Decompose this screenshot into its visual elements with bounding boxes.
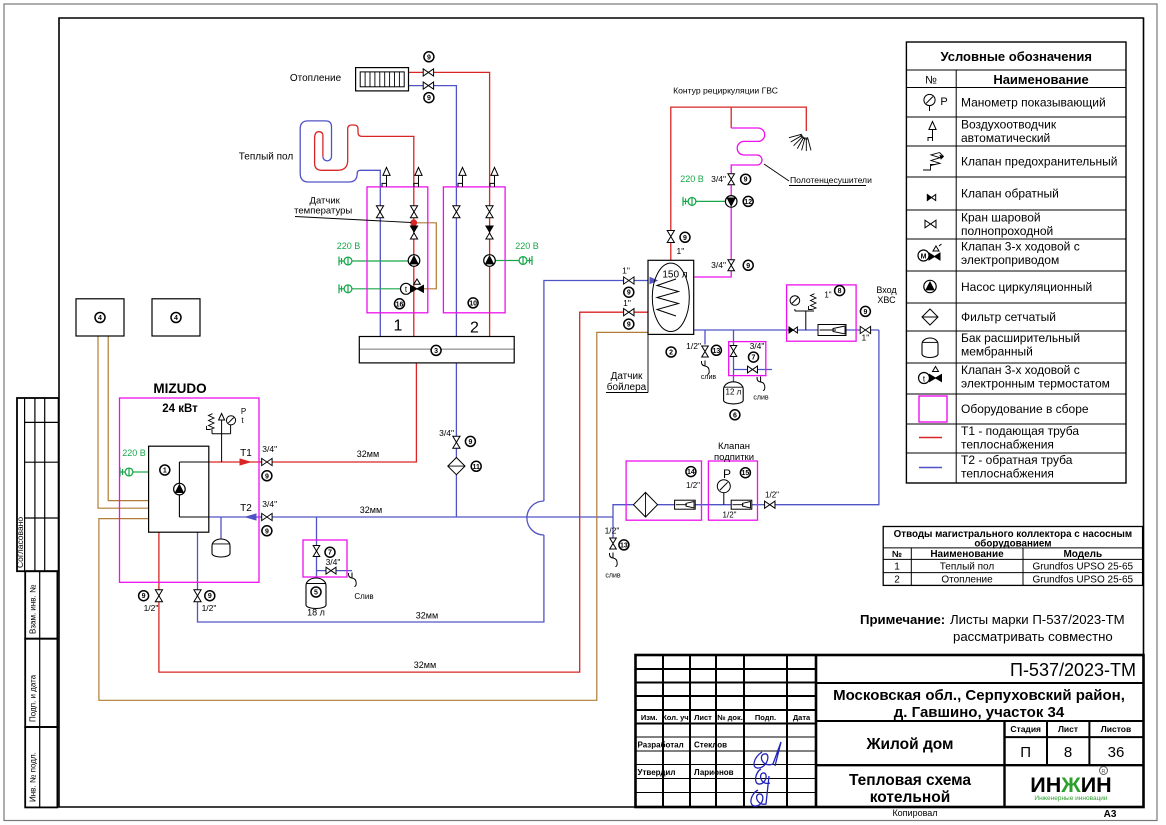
svg-text:теплоснабжения: теплоснабжения [961, 438, 1054, 452]
svg-text:Слив: Слив [354, 592, 373, 601]
svg-text:Стадия: Стадия [1010, 724, 1041, 734]
svg-text:Листы марки П-537/2023-ТМ: Листы марки П-537/2023-ТМ [950, 612, 1125, 627]
svg-text:мембранный: мембранный [961, 345, 1033, 359]
svg-text:слив: слив [753, 395, 768, 402]
svg-text:Разработал: Разработал [638, 741, 684, 750]
svg-text:9: 9 [627, 322, 631, 329]
svg-text:д. Гавшино, участок 34: д. Гавшино, участок 34 [894, 704, 1065, 721]
svg-text:Клапан обратный: Клапан обратный [961, 187, 1059, 201]
svg-text:Взам. инв. №: Взам. инв. № [29, 584, 38, 634]
svg-text:Фильтр сетчатый: Фильтр сетчатый [961, 310, 1056, 324]
svg-text:9: 9 [746, 263, 750, 270]
svg-text:Grundfos UPSO 25-65: Grundfos UPSO 25-65 [1032, 562, 1133, 573]
svg-text:слив: слив [701, 374, 716, 381]
svg-text:1/2": 1/2" [605, 526, 620, 536]
svg-text:8: 8 [1064, 744, 1072, 761]
svg-text:Инженерные инновации: Инженерные инновации [1034, 795, 1108, 802]
svg-text:9: 9 [208, 593, 212, 600]
svg-text:Московская обл., Серпуховский: Московская обл., Серпуховский район, [833, 687, 1125, 704]
svg-text:13: 13 [713, 348, 721, 355]
svg-text:16: 16 [396, 301, 404, 308]
svg-text:рассматривать совместно: рассматривать совместно [953, 629, 1113, 644]
svg-text:теплоснабжения: теплоснабжения [961, 467, 1054, 481]
svg-text:Бак расширительный: Бак расширительный [961, 331, 1080, 345]
svg-text:М: М [921, 254, 927, 261]
svg-text:Теплый пол: Теплый пол [239, 152, 294, 163]
svg-text:3/4": 3/4" [711, 174, 726, 184]
svg-text:2: 2 [894, 575, 900, 586]
svg-text:1": 1" [622, 266, 630, 276]
svg-text:7: 7 [328, 550, 332, 557]
svg-text:Согласовано: Согласовано [15, 517, 25, 568]
svg-text:ХВС: ХВС [877, 295, 896, 305]
svg-text:12 л: 12 л [726, 388, 742, 397]
svg-text:Примечание:: Примечание: [860, 612, 945, 627]
svg-text:R: R [1102, 769, 1106, 775]
svg-text:Кол. уч.: Кол. уч. [662, 713, 691, 722]
svg-text:Утвердил: Утвердил [638, 768, 676, 777]
svg-text:Воздухоотводчик: Воздухоотводчик [961, 118, 1057, 132]
svg-text:5: 5 [314, 590, 318, 597]
svg-text:Р: Р [940, 96, 947, 108]
svg-text:220 В: 220 В [515, 241, 539, 251]
svg-text:6: 6 [733, 412, 737, 419]
svg-text:1/2": 1/2" [686, 341, 701, 351]
svg-text:1: 1 [394, 318, 403, 335]
svg-text:9: 9 [427, 95, 431, 102]
svg-text:14: 14 [687, 469, 695, 476]
svg-text:24 кВт: 24 кВт [162, 403, 198, 415]
svg-text:температуры: температуры [294, 206, 352, 217]
svg-text:9: 9 [427, 54, 431, 61]
svg-text:2: 2 [669, 350, 673, 357]
svg-text:Наименование: Наименование [993, 72, 1088, 87]
svg-text:Теплый пол: Теплый пол [940, 562, 995, 573]
svg-text:1/2": 1/2" [723, 511, 737, 520]
svg-text:3/4": 3/4" [711, 260, 726, 270]
svg-text:Копировал: Копировал [892, 808, 937, 818]
svg-text:Вход: Вход [876, 285, 897, 295]
svg-text:9: 9 [627, 290, 631, 297]
svg-text:3/4": 3/4" [262, 444, 277, 454]
svg-text:Изм.: Изм. [641, 713, 658, 722]
svg-text:220 В: 220 В [337, 241, 361, 251]
svg-text:автоматический: автоматический [961, 131, 1050, 145]
svg-text:Контур рециркуляции ГВС: Контур рециркуляции ГВС [673, 86, 778, 96]
svg-text:котельной: котельной [870, 789, 951, 806]
svg-text:3/4": 3/4" [326, 557, 341, 567]
svg-text:32мм: 32мм [414, 660, 436, 670]
svg-text:Клапан 3-х ходовой с: Клапан 3-х ходовой с [961, 240, 1080, 254]
svg-text:7: 7 [752, 355, 756, 362]
svg-text:3: 3 [434, 348, 438, 355]
svg-text:№: № [925, 75, 937, 87]
svg-text:1": 1" [623, 298, 631, 308]
svg-text:слив: слив [605, 573, 620, 580]
svg-text:Клапан 3-х ходовой с: Клапан 3-х ходовой с [961, 363, 1080, 377]
svg-text:бойлера: бойлера [607, 381, 647, 393]
svg-text:1: 1 [163, 468, 167, 475]
svg-text:Ларионов: Ларионов [694, 768, 734, 777]
svg-text:220 В: 220 В [122, 448, 146, 458]
svg-text:P: P [241, 407, 246, 416]
svg-text:P: P [723, 467, 731, 481]
svg-text:Дата: Дата [793, 713, 811, 722]
svg-text:2: 2 [470, 320, 479, 337]
svg-text:Т2: Т2 [240, 503, 252, 514]
svg-text:Наименование: Наименование [930, 549, 1004, 560]
svg-text:Т1: Т1 [240, 448, 252, 459]
svg-text:4: 4 [174, 315, 178, 322]
svg-text:Т2 - обратная труба: Т2 - обратная труба [961, 453, 1073, 467]
svg-text:электроприводом: электроприводом [961, 253, 1059, 267]
svg-text:Жилой дом: Жилой дом [865, 736, 953, 753]
svg-text:9: 9 [863, 309, 867, 316]
svg-text:Полотенцесушители: Полотенцесушители [790, 175, 872, 185]
svg-text:3/4": 3/4" [262, 499, 277, 509]
svg-text:12: 12 [744, 199, 752, 206]
svg-text:Клапан: Клапан [718, 441, 750, 452]
svg-text:Манометр показывающий: Манометр показывающий [961, 96, 1106, 110]
svg-text:электронным термостатом: электронным термостатом [961, 377, 1110, 391]
svg-text:3/4": 3/4" [750, 341, 765, 351]
svg-text:Отопление: Отопление [941, 575, 993, 586]
svg-text:8: 8 [838, 288, 842, 295]
svg-text:1/2": 1/2" [765, 491, 779, 500]
svg-text:Лист: Лист [1058, 724, 1078, 734]
svg-text:15: 15 [742, 470, 750, 477]
svg-text:Инв. № подл.: Инв. № подл. [29, 752, 38, 802]
svg-text:Оборудование в сборе: Оборудование в сборе [961, 402, 1089, 416]
svg-text:Насос циркуляционный: Насос циркуляционный [961, 280, 1092, 294]
svg-text:Модель: Модель [1063, 549, 1102, 560]
svg-text:11: 11 [472, 464, 480, 471]
svg-text:Кран шаровой: Кран шаровой [961, 211, 1041, 225]
svg-text:Лист: Лист [694, 713, 712, 722]
svg-text:13: 13 [620, 542, 628, 549]
svg-text:Стеклов: Стеклов [694, 741, 727, 750]
svg-text:3/4": 3/4" [439, 428, 454, 438]
svg-text:№: № [892, 549, 902, 559]
svg-text:П-537/2023-ТМ: П-537/2023-ТМ [1010, 660, 1136, 680]
svg-text:1: 1 [894, 562, 900, 573]
svg-text:10: 10 [469, 300, 477, 307]
svg-text:Датчик: Датчик [611, 371, 643, 382]
svg-text:Условные обозначения: Условные обозначения [940, 49, 1091, 64]
svg-text:32мм: 32мм [360, 505, 382, 515]
svg-text:Листов: Листов [1101, 724, 1131, 734]
svg-text:Клапан предохранительный: Клапан предохранительный [961, 155, 1117, 169]
svg-text:подпитки: подпитки [714, 452, 754, 463]
svg-text:18 л: 18 л [307, 608, 325, 618]
svg-text:9: 9 [468, 439, 472, 446]
svg-text:№ док.: № док. [717, 713, 743, 722]
svg-text:1": 1" [677, 246, 685, 256]
svg-text:Тепловая схема: Тепловая схема [849, 772, 971, 789]
svg-text:Подп. и дата: Подп. и дата [29, 674, 38, 722]
svg-text:9: 9 [744, 177, 748, 184]
svg-text:150 л: 150 л [662, 270, 687, 281]
svg-text:32мм: 32мм [357, 449, 379, 459]
svg-text:1/2": 1/2" [144, 603, 159, 613]
svg-text:полнопроходной: полнопроходной [961, 224, 1053, 238]
svg-text:MIZUDO: MIZUDO [153, 381, 206, 396]
svg-text:П: П [1020, 744, 1031, 761]
svg-text:1/2": 1/2" [686, 481, 700, 490]
svg-text:32мм: 32мм [416, 611, 438, 621]
svg-text:36: 36 [1108, 744, 1125, 761]
svg-text:ИНЖИН: ИНЖИН [1030, 773, 1111, 797]
svg-text:220 В: 220 В [680, 174, 704, 184]
svg-text:9: 9 [683, 235, 687, 242]
svg-text:А3: А3 [1104, 809, 1117, 820]
svg-text:1": 1" [824, 291, 831, 300]
svg-text:Подп.: Подп. [755, 713, 776, 722]
svg-text:9: 9 [265, 528, 269, 535]
svg-text:Отопление: Отопление [290, 73, 342, 84]
svg-text:9: 9 [265, 473, 269, 480]
svg-text:Grundfos UPSO 25-65: Grundfos UPSO 25-65 [1032, 575, 1133, 586]
svg-text:9: 9 [142, 593, 146, 600]
svg-text:4: 4 [98, 315, 102, 322]
svg-text:оборудованием: оборудованием [974, 539, 1051, 550]
svg-text:1": 1" [862, 333, 870, 343]
svg-text:1/2": 1/2" [202, 603, 217, 613]
svg-text:Т1 - подающая труба: Т1 - подающая труба [961, 424, 1079, 438]
